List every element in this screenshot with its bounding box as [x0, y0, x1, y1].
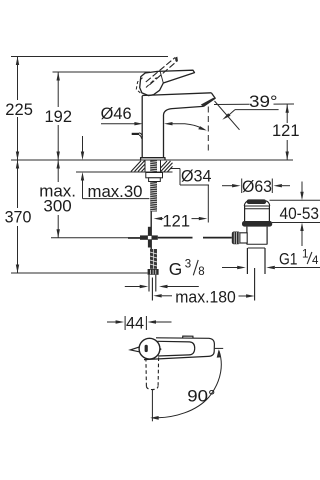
- top reference line (faucet max height): [11, 56, 168, 58]
- svg-text:90°: 90°: [187, 386, 215, 405]
- svg-text:max.180: max.180: [175, 287, 236, 306]
- vertical adjuster rod: [254, 268, 256, 301]
- 44 dimension: [107, 316, 172, 330]
- threaded shank: [150, 161, 157, 212]
- max300 bottom reference line / rod guide line: [51, 237, 140, 239]
- waste tailpipe G1 1/4: [246, 248, 248, 274]
- pull rod (vertical): [150, 212, 152, 250]
- G3/8 arrows at supply pipe: [125, 286, 144, 288]
- waste upper body: [244, 206, 269, 209]
- max.180 dimension: [153, 294, 162, 297]
- waste plug cap: [247, 199, 267, 204]
- G3/8 connector pipe: [149, 275, 156, 301]
- svg-text:300: 300: [43, 197, 71, 216]
- knurled adjusting knob: [232, 232, 240, 245]
- dimension line 225/370: [17, 57, 19, 101]
- handle rotated 90 (dashed): [146, 357, 159, 389]
- dimension line 40-53: [301, 182, 303, 193]
- deck underside line: [76, 171, 173, 173]
- pull rod coupler (cross): [148, 227, 152, 248]
- horizontal actuating rod (right segment): [203, 237, 232, 239]
- raised lever (dashed): [146, 58, 178, 85]
- rubber washer: [242, 221, 272, 227]
- deck hatching left: [131, 161, 145, 172]
- horizontal actuating rod (left of coupler): [128, 237, 140, 239]
- lever blade (top view): [158, 341, 195, 356]
- Ø63 dimension: [222, 185, 236, 187]
- horizontal actuating rod (mid segment): [158, 237, 193, 239]
- mounting washer: [146, 173, 163, 178]
- vertical projection line from aerator: [207, 107, 209, 155]
- hose-end reference line (370 bottom): [11, 272, 148, 274]
- raised lever hidden edge (dashed): [146, 78, 157, 88]
- svg-text:192: 192: [45, 107, 73, 126]
- svg-text:39°: 39°: [249, 92, 278, 111]
- faucet base plate: [141, 158, 165, 160]
- svg-text:4: 4: [312, 255, 319, 267]
- svg-text:370: 370: [5, 208, 32, 227]
- 90 degree swivel arc: [158, 351, 221, 418]
- 192 reference line: [53, 71, 151, 73]
- svg-text:40-53: 40-53: [280, 204, 320, 223]
- svg-text:121: 121: [272, 121, 300, 140]
- braided supply hose: [150, 249, 157, 269]
- svg-text:8: 8: [198, 266, 204, 278]
- G 1 1/4 callout: [222, 267, 241, 269]
- dimension line 192/max300: [57, 72, 59, 107]
- deck hatching right: [161, 161, 173, 172]
- deck hole right wall: [160, 160, 162, 172]
- aerator notch: [183, 336, 193, 338]
- mounting nut: [149, 178, 161, 182]
- svg-text:Ø63: Ø63: [242, 177, 272, 196]
- svg-text:44: 44: [126, 313, 144, 332]
- svg-text:Ø46: Ø46: [101, 104, 132, 123]
- svg-text:G: G: [169, 259, 183, 279]
- svg-text:3: 3: [185, 259, 191, 271]
- spout body (top view): [144, 338, 214, 360]
- dimension line 121 (vertical): [286, 104, 288, 123]
- svg-text:225: 225: [5, 100, 33, 119]
- water stream angle line: [215, 101, 240, 130]
- deck hole left wall: [144, 160, 146, 172]
- max30 dimension arrows: [82, 136, 84, 152]
- svg-text:max.30: max.30: [88, 182, 143, 201]
- raised lever knuckle (dashed): [136, 78, 142, 93]
- svg-text:1: 1: [302, 249, 308, 261]
- temperature tab: [130, 347, 139, 352]
- Ø34 callout: [170, 168, 180, 170]
- waste lower body: [246, 227, 248, 245]
- handle slot and dot: [145, 345, 148, 352]
- svg-text:G1: G1: [279, 250, 298, 269]
- svg-text:121: 121: [163, 211, 191, 230]
- lever handle (horizontal position): [158, 70, 195, 83]
- handle pivot circle: [139, 338, 160, 359]
- faucet body left edge: [141, 96, 143, 158]
- faucet body right edge: [164, 106, 204, 157]
- deck top line: [11, 159, 293, 161]
- handle axis centerline: [151, 390, 153, 422]
- dimension 121 (spout reach): [154, 217, 163, 220]
- spout top line: [142, 93, 211, 96]
- aerator level line: [214, 103, 250, 105]
- aerator: [203, 93, 215, 107]
- pop-up rod top handle: [132, 133, 139, 135]
- svg-text:Ø34: Ø34: [181, 167, 212, 186]
- rod side port: [240, 233, 247, 243]
- 40-53 reference lines: [270, 199, 320, 201]
- hose ferrule: [148, 269, 159, 275]
- lever knuckle: [140, 71, 164, 95]
